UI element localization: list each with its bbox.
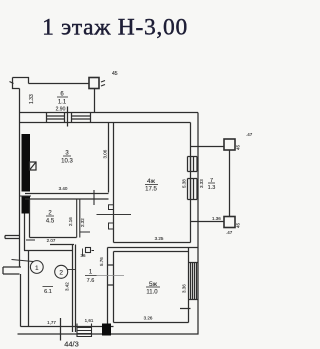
room 5 inner top wall (114, 251, 190, 253)
svg-text:3.06: 3.06 (103, 149, 108, 158)
corridor left wall inner (75, 245, 77, 333)
room 3 underline (63, 155, 71, 157)
stair hall left wall (28, 251, 30, 327)
short wall line crossing bar gap (20, 195, 31, 197)
svg-text:3.42: 3.42 (65, 282, 70, 291)
door line from hall to room 4 (97, 214, 132, 216)
svg-text:1.33: 1.33 (29, 94, 35, 104)
svg-text:2.16: 2.16 (68, 217, 73, 226)
door strip A on room4 right wall (188, 157, 198, 172)
svg-text:45: 45 (112, 71, 118, 77)
window W1 in wall between room 6 and room 3 (47, 113, 65, 123)
room 5 underline (146, 286, 160, 288)
window W2 in wall between room 6 and room 3 (72, 113, 91, 123)
left wall inner below bar (24, 214, 26, 251)
room 2 underline (46, 215, 54, 217)
wall top-left step outer (13, 78, 29, 84)
stair marker circle 1 (30, 261, 43, 274)
svg-text:3.40: 3.40 (59, 186, 68, 191)
svg-text:1.3: 1.3 (208, 185, 216, 191)
connector line to upper shaft box (191, 146, 224, 148)
tick inside room 5 near right wall (180, 308, 191, 310)
entry dimension line (12, 260, 34, 262)
stair flight tick (26, 239, 35, 241)
leader line from label (97, 275, 125, 277)
svg-text:7.6: 7.6 (87, 278, 95, 284)
wall between room 4 and room 5 shared line (108, 247, 199, 249)
vertical connector between shaft boxes (229, 150, 231, 217)
room 4 inner right wall (190, 123, 192, 243)
wall top-left step left side (13, 78, 20, 89)
svg-text:44/3: 44/3 (64, 340, 79, 349)
wall left exterior vertical (19, 89, 21, 268)
wall between room 3 and room 4 inner (113, 123, 115, 243)
corridor left wall outer (72, 245, 74, 333)
porch stub upper (5, 236, 20, 239)
svg-text:11.0: 11.0 (146, 290, 158, 296)
stair hall top wall (24, 250, 73, 252)
stair marker circle 2 (55, 265, 68, 278)
room 6 underline (57, 96, 68, 98)
svg-text:45: 45 (236, 222, 241, 228)
door strip B on room4 right wall (188, 179, 198, 200)
exterior wall black bar upper (22, 134, 31, 192)
divider between windows (67, 107, 69, 127)
room 2 bottom wall (30, 237, 77, 239)
svg-text:2.07: 2.07 (47, 238, 56, 243)
svg-text:10.3: 10.3 (61, 159, 73, 165)
svg-text:3.36: 3.36 (182, 284, 187, 293)
building outer bottom wall (18, 333, 199, 335)
left wall to bottom (20, 274, 22, 327)
entrance black wall bar (102, 324, 111, 336)
upper shaft box (224, 139, 235, 150)
wall between room 3 and room 4 outer (108, 123, 110, 193)
svg-text:4.5: 4.5 (46, 219, 55, 225)
wall between room 3 and room 2 lower line (25, 198, 109, 200)
svg-text:45: 45 (236, 144, 241, 150)
svg-text:1.36: 1.36 (212, 216, 221, 221)
svg-text:3.33: 3.33 (199, 179, 204, 188)
svg-text:1,77: 1,77 (47, 320, 56, 325)
lower shaft box (224, 217, 235, 228)
niche box with diagonal (30, 162, 37, 170)
svg-text:1: 1 (35, 265, 39, 272)
svg-text:.47: .47 (246, 132, 253, 137)
wall top outer of rooms 3 and 4 (20, 112, 199, 114)
svg-text:3.26: 3.26 (144, 316, 153, 321)
room 7 underline (208, 182, 215, 184)
wall room 2 to corridor (50, 244, 74, 246)
svg-text:4ж: 4ж (147, 178, 156, 185)
svg-text:3.25: 3.25 (155, 236, 164, 241)
svg-text:5.38: 5.38 (182, 179, 187, 188)
wall between room 3 and room 2 upper line (25, 193, 109, 195)
svg-text:17.5: 17.5 (145, 187, 157, 193)
vent duct line down from box (94, 89, 96, 113)
room 5 right inner wall (188, 248, 190, 323)
window in room 5 right wall (189, 263, 199, 300)
svg-text:2.32: 2.32 (80, 218, 85, 227)
dimension tick on wall (93, 190, 95, 205)
step arrow tick (10, 82, 14, 84)
svg-text:1 этаж Н-3,00: 1 этаж Н-3,00 (42, 15, 188, 41)
bottom wall left inner (21, 326, 114, 328)
wall ticks (108, 265, 114, 285)
exterior wall black bar lower (22, 197, 31, 214)
svg-text:2: 2 (59, 270, 63, 277)
room 2 left wall (29, 200, 31, 238)
svg-text:1.1: 1.1 (58, 100, 67, 106)
wall top inner of rooms 3 and 4 (20, 122, 191, 124)
short line from wall into hall (80, 231, 90, 233)
svg-text:1,61: 1,61 (85, 318, 94, 323)
bottom door tick (60, 318, 62, 341)
door jamb upper (109, 205, 114, 210)
svg-text:.47: .47 (226, 230, 233, 235)
stair hall area 6.1 with overline (43, 286, 54, 288)
door marks at corridor top (86, 248, 91, 253)
room 2 right wall double (77, 199, 80, 238)
corridor right wall inner (113, 252, 115, 323)
room 5 inner bottom wall (114, 322, 189, 324)
svg-text:2.90: 2.90 (56, 107, 66, 113)
wall top horizontal to vent box (29, 83, 90, 85)
door jamb lower (109, 223, 114, 229)
svg-text:5.76: 5.76 (99, 257, 104, 266)
vent box arrows (101, 81, 105, 87)
entrance stairs ladder (77, 324, 92, 338)
corridor right wall outer (107, 248, 109, 327)
building right outer wall (197, 113, 199, 335)
room 4 inner bottom wall (114, 242, 191, 244)
porch stub lower (3, 267, 21, 274)
svg-text:36: 36 (81, 253, 87, 258)
corridor fraction bar (85, 275, 97, 277)
circle 2 leader (67, 269, 76, 271)
vent box U1 at top (89, 78, 99, 89)
svg-text:6.1: 6.1 (44, 289, 52, 295)
room 4 underline (145, 184, 158, 186)
